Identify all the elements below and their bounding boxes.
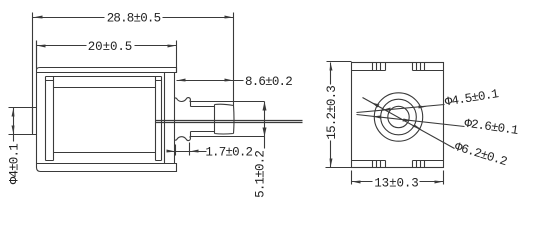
svg-text:Φ6.2±0.2: Φ6.2±0.2	[453, 140, 509, 169]
svg-text:5.1±0.2: 5.1±0.2	[254, 151, 268, 198]
svg-text:Φ4±0.1: Φ4±0.1	[7, 144, 21, 185]
svg-text:28.8±0.5: 28.8±0.5	[107, 12, 161, 26]
svg-text:1.7±0.2: 1.7±0.2	[205, 146, 252, 160]
svg-text:15.2±0.3: 15.2±0.3	[325, 86, 339, 140]
svg-text:Φ4.5±0.1: Φ4.5±0.1	[444, 87, 499, 109]
svg-text:8.6±0.2: 8.6±0.2	[245, 75, 292, 89]
svg-text:Φ2.6±0.1: Φ2.6±0.1	[463, 117, 518, 138]
svg-text:20±0.5: 20±0.5	[88, 40, 132, 54]
svg-text:13±0.3: 13±0.3	[374, 176, 418, 190]
